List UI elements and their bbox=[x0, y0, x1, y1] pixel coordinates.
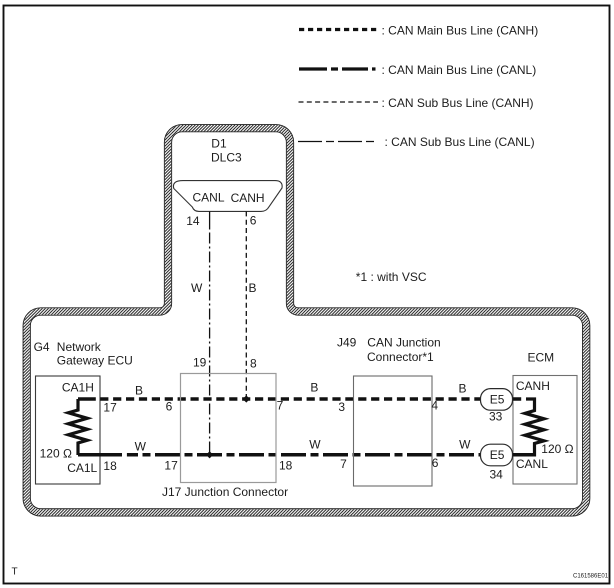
connector E5 (CANL) bbox=[481, 444, 513, 466]
svg-text:: CAN Sub Bus Line (CANL): : CAN Sub Bus Line (CANL) bbox=[385, 135, 535, 149]
svg-text:E5: E5 bbox=[490, 392, 505, 406]
svg-text:W: W bbox=[135, 440, 147, 454]
DLC3 connector shape bbox=[173, 181, 282, 212]
svg-text:D1: D1 bbox=[211, 136, 227, 150]
svg-text:B: B bbox=[249, 281, 257, 295]
svg-text:34: 34 bbox=[490, 468, 504, 482]
svg-text:6: 6 bbox=[166, 400, 173, 414]
svg-text:4: 4 bbox=[431, 398, 438, 412]
svg-text:J17 Junction Connector: J17 Junction Connector bbox=[162, 485, 288, 499]
wire: CANL solid inside ECM bbox=[513, 453, 535, 457]
svg-text:E5: E5 bbox=[490, 448, 505, 462]
ECM box bbox=[513, 376, 577, 485]
svg-text:*1 : with VSC: *1 : with VSC bbox=[356, 270, 427, 284]
ECM terminating resistor bbox=[525, 399, 544, 457]
junction dot on CANL (W) bbox=[206, 451, 213, 458]
svg-text:CA1H: CA1H bbox=[62, 380, 94, 394]
legend line 4: CAN Sub Bus Line (CANL) sample bbox=[298, 141, 376, 143]
svg-text:W: W bbox=[191, 281, 203, 295]
wire: CANL main bus stub inside G4 bbox=[78, 453, 122, 457]
svg-text:6: 6 bbox=[250, 213, 257, 227]
wire: CANH main bus stub inside G4 bbox=[78, 397, 96, 401]
svg-text:B: B bbox=[459, 381, 467, 395]
svg-text:W: W bbox=[309, 438, 321, 452]
svg-text:CANH: CANH bbox=[231, 191, 265, 205]
svg-text:J49: J49 bbox=[337, 335, 357, 349]
junction dot on CANH (B) bbox=[243, 395, 250, 402]
svg-text:18: 18 bbox=[103, 459, 117, 473]
wire: CAN sub bus CANH (B) vertical dashed bbox=[245, 211, 247, 399]
svg-text:B: B bbox=[310, 381, 318, 395]
svg-text:T: T bbox=[12, 567, 18, 578]
svg-text:33: 33 bbox=[489, 410, 503, 424]
svg-text:120 Ω: 120 Ω bbox=[541, 442, 573, 456]
wire: CAN sub bus CANL (W) vertical dash-dot bbox=[209, 233, 211, 455]
svg-text:17: 17 bbox=[164, 459, 178, 473]
svg-text:CANL: CANL bbox=[193, 190, 225, 204]
svg-text:C161586E01: C161586E01 bbox=[573, 573, 609, 579]
wire: CANH dash inside ECM bbox=[513, 397, 522, 401]
G4 terminating resistor bbox=[68, 399, 87, 455]
wire: CAN sub bus CANL (W) vertical solid stub bbox=[209, 211, 211, 229]
svg-text:W: W bbox=[459, 438, 471, 452]
wire: CANL main bus G4 to E5 (W, thick dash-dot) bbox=[127, 453, 481, 457]
svg-text:7: 7 bbox=[277, 399, 284, 413]
harness outline (hatched band) bbox=[27, 128, 587, 512]
svg-text:: CAN Main Bus Line (CANL): : CAN Main Bus Line (CANL) bbox=[382, 63, 537, 77]
legend line 2: CAN Main Bus Line (CANL) sample bbox=[299, 67, 378, 70]
svg-text:CANH: CANH bbox=[516, 379, 550, 393]
svg-text:: CAN Main Bus Line (CANH): : CAN Main Bus Line (CANH) bbox=[382, 23, 539, 37]
svg-text:18: 18 bbox=[279, 459, 293, 473]
svg-text:3: 3 bbox=[338, 400, 345, 414]
J49 CAN junction connector box bbox=[354, 376, 433, 486]
svg-text:ECM: ECM bbox=[528, 351, 555, 365]
svg-text:DLC3: DLC3 bbox=[211, 151, 242, 165]
connector E5 (CANH) bbox=[481, 389, 513, 411]
svg-text:Gateway ECU: Gateway ECU bbox=[57, 354, 133, 368]
svg-text:: CAN Sub Bus Line (CANH): : CAN Sub Bus Line (CANH) bbox=[382, 96, 534, 110]
svg-text:Connector*1: Connector*1 bbox=[367, 350, 434, 364]
svg-text:120 Ω: 120 Ω bbox=[40, 446, 72, 460]
legend line 3: CAN Sub Bus Line (CANH) sample bbox=[299, 101, 379, 103]
svg-text:CAN Junction: CAN Junction bbox=[367, 335, 440, 349]
svg-text:G4: G4 bbox=[34, 340, 50, 354]
wire: CANH main bus G4 to E5 (B, thick dashed) bbox=[96, 397, 481, 401]
svg-text:14: 14 bbox=[186, 214, 200, 228]
svg-text:8: 8 bbox=[250, 357, 257, 371]
svg-text:7: 7 bbox=[340, 457, 347, 471]
svg-text:17: 17 bbox=[103, 401, 117, 415]
svg-text:19: 19 bbox=[193, 356, 207, 370]
svg-text:CA1L: CA1L bbox=[67, 461, 97, 475]
svg-text:CANL: CANL bbox=[516, 457, 548, 471]
svg-text:6: 6 bbox=[432, 456, 439, 470]
svg-text:Network: Network bbox=[57, 340, 102, 354]
J17 junction connector box bbox=[181, 374, 277, 483]
svg-text:B: B bbox=[135, 384, 143, 398]
G4 Network Gateway ECU box bbox=[36, 376, 101, 484]
legend line 1: CAN Main Bus Line (CANH) sample bbox=[299, 28, 379, 31]
